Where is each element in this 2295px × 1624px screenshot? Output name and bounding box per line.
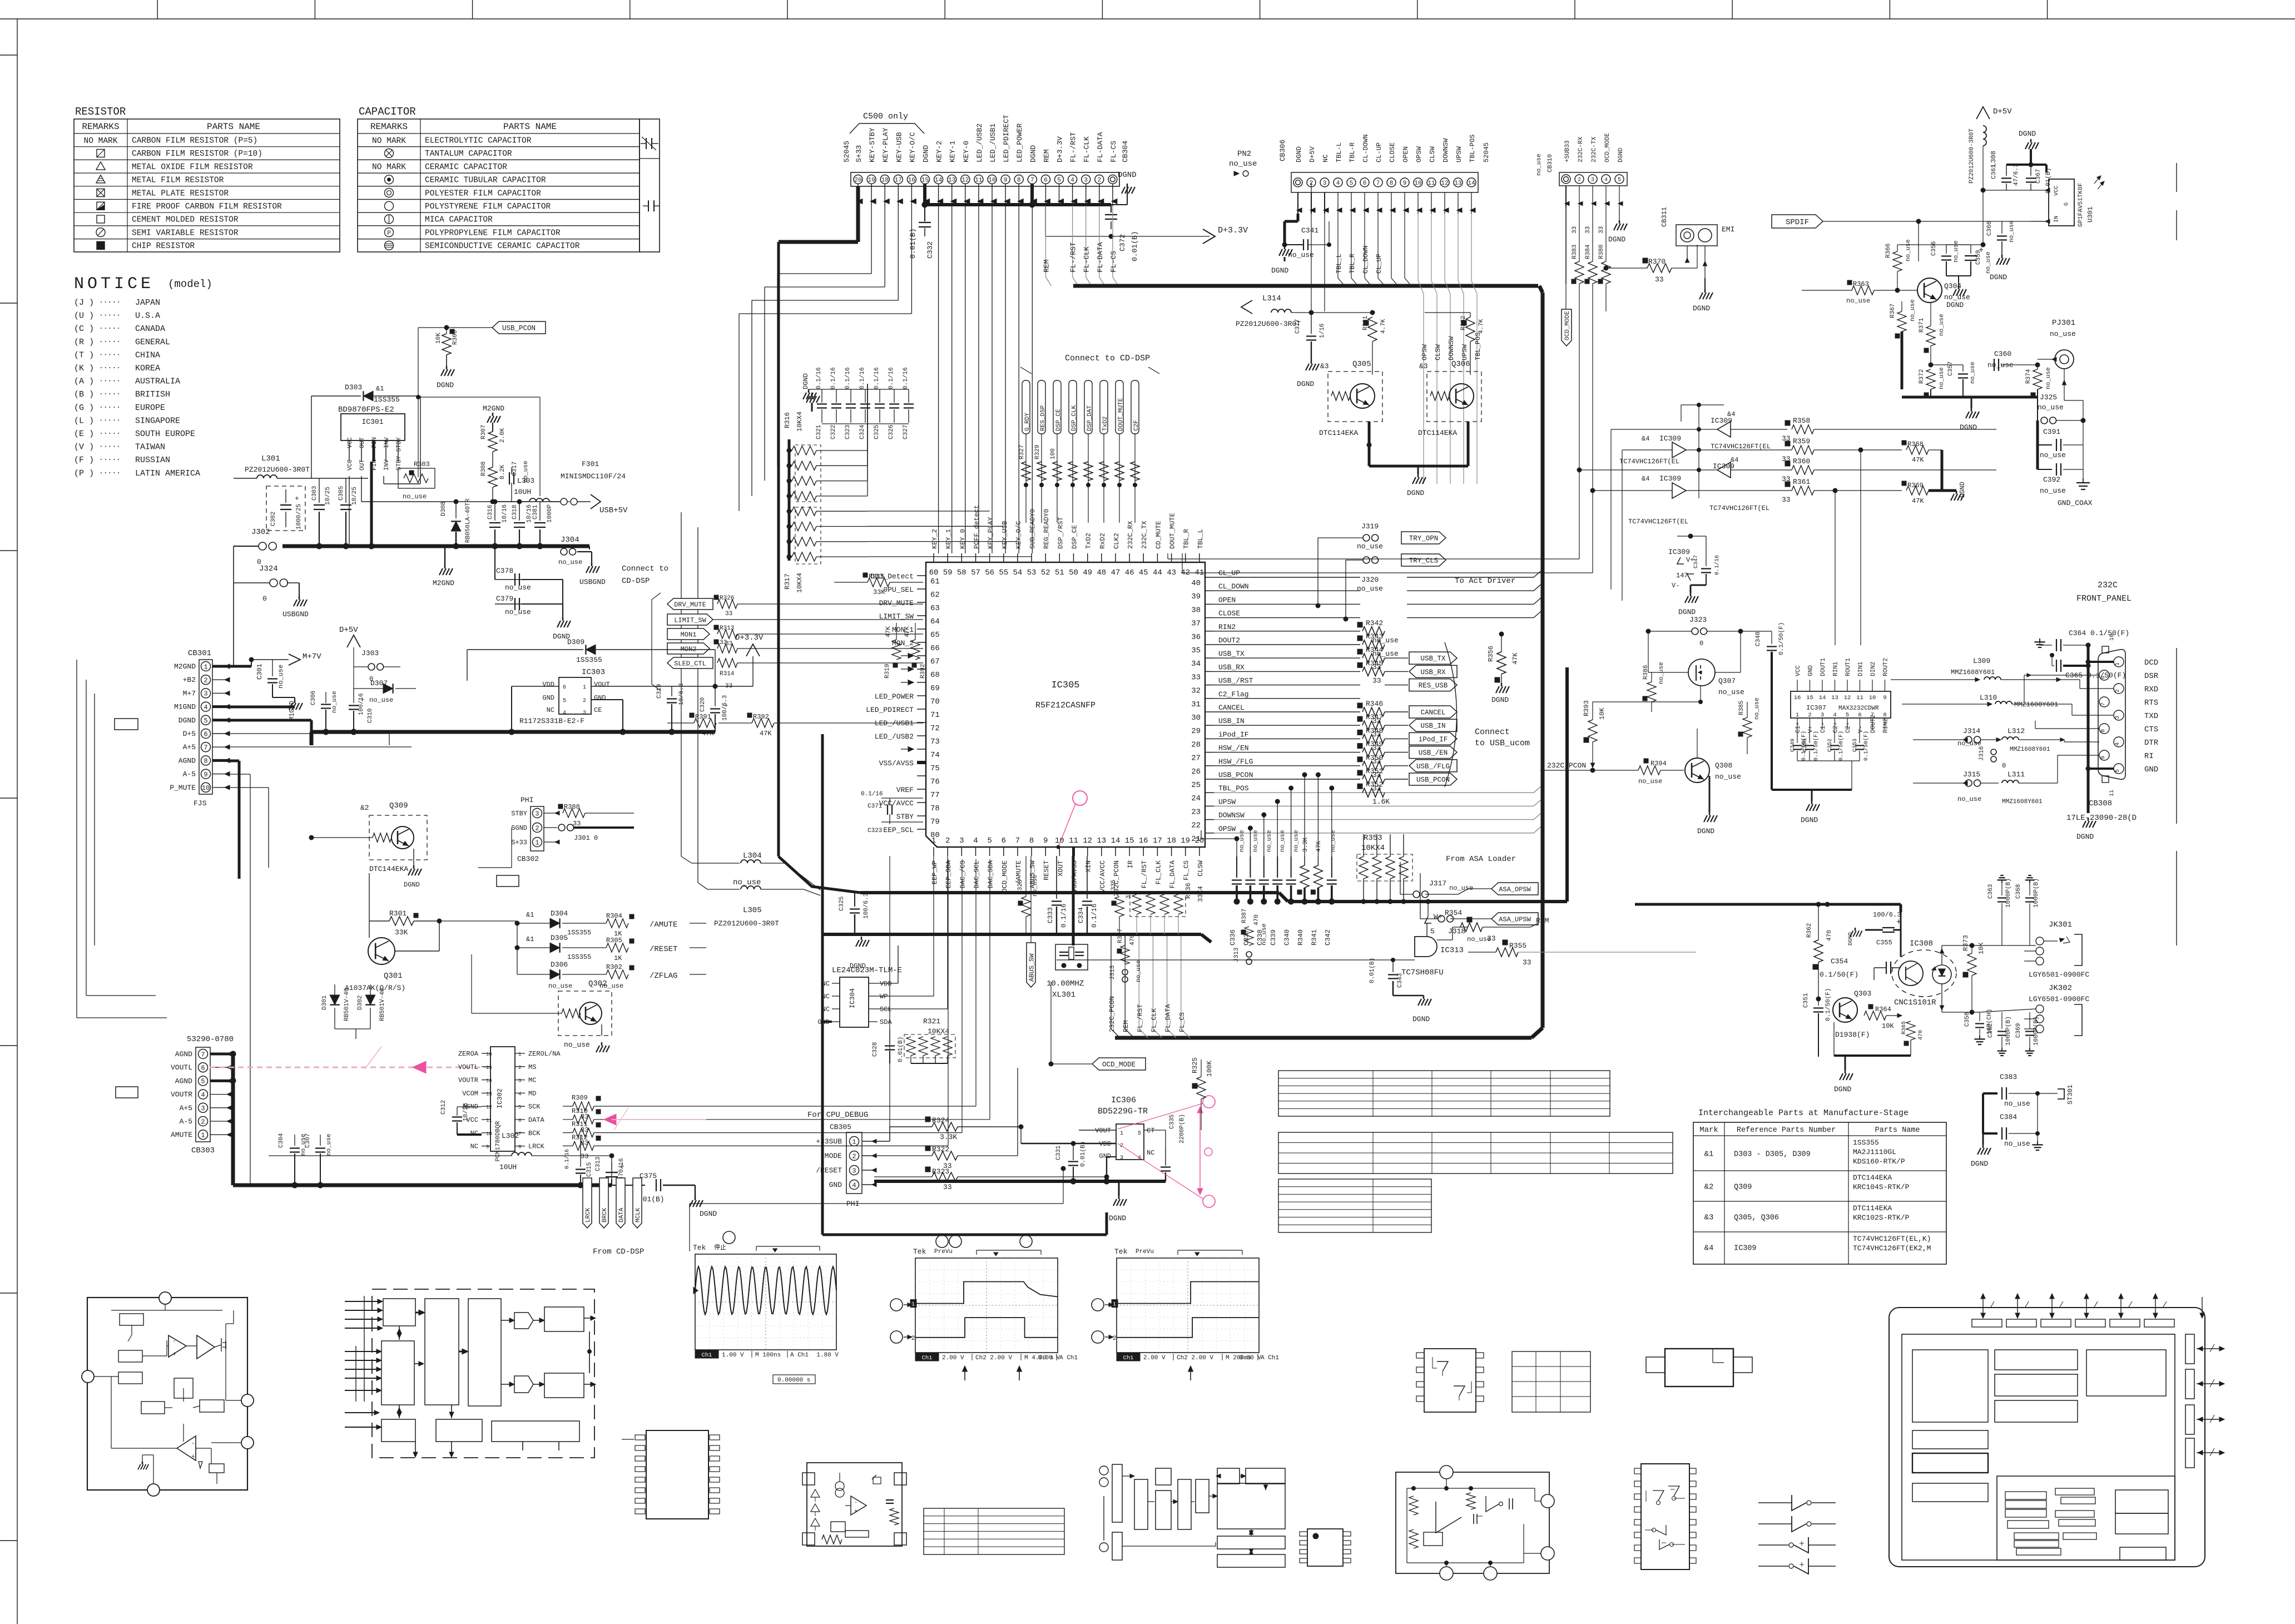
- R381 R382 4.7K: [1362, 313, 1485, 375]
- svg-text:no_use: no_use: [1357, 542, 1383, 551]
- svg-text:CLSW: CLSW: [1429, 146, 1436, 162]
- svg-text:DGND: DGND: [1297, 380, 1314, 388]
- svg-text:CD_MUTE: CD_MUTE: [1154, 521, 1162, 549]
- svg-text:52045: 52045: [842, 141, 851, 162]
- svg-text:D301: D301: [321, 995, 328, 1010]
- svg-text:C303: C303: [311, 486, 318, 501]
- svg-text:64: 64: [930, 617, 940, 626]
- svg-text:C366: C366: [1986, 221, 1993, 236]
- svg-text:&2: &2: [1704, 1183, 1714, 1192]
- svg-text:C307: C307: [305, 1133, 311, 1148]
- svg-text:REMARKS: REMARKS: [82, 122, 119, 132]
- svg-text:OCD_MODE: OCD_MODE: [1001, 860, 1009, 893]
- svg-text:4.7K: 4.7K: [1380, 319, 1387, 334]
- svg-text:0.01(B): 0.01(B): [909, 228, 917, 259]
- svg-text:R382: R382: [1460, 316, 1467, 330]
- svg-text:CB302: CB302: [517, 855, 539, 863]
- wire bundle 232C REM FL to bus: [1108, 934, 1190, 1038]
- svg-text:M1GND: M1GND: [174, 703, 196, 711]
- svg-text:R319: R319: [884, 664, 891, 679]
- svg-text:KEY-USB: KEY-USB: [895, 132, 903, 162]
- caps C378 C379 no_use: [495, 546, 572, 641]
- svg-text:R361: R361: [1793, 478, 1810, 486]
- svg-text:DGND: DGND: [1959, 482, 1966, 498]
- svg-text:ELECTROLYTIC CAPACITOR: ELECTROLYTIC CAPACITOR: [425, 137, 532, 146]
- svg-text:27: 27: [1191, 754, 1201, 763]
- svg-text:/RESET: /RESET: [816, 1166, 842, 1175]
- svg-text:RES_USB: RES_USB: [1419, 682, 1448, 690]
- svg-text:2: 2: [1808, 712, 1811, 719]
- svg-text:no_use: no_use: [2040, 451, 2066, 459]
- svg-text:DIN2: DIN2: [1870, 662, 1877, 676]
- svg-text:4: 4: [201, 1091, 205, 1099]
- svg-text:14: 14: [935, 177, 943, 184]
- svg-text:no_use: no_use: [1136, 960, 1142, 982]
- svg-text:C354: C354: [1831, 957, 1848, 966]
- svg-text:10/16: 10/16: [502, 504, 508, 523]
- svg-text:R392: R392: [920, 664, 926, 679]
- svg-text:DOUT_MUTE: DOUT_MUTE: [1118, 398, 1124, 431]
- svg-text:DGND: DGND: [1608, 235, 1625, 244]
- coax jack PJ301 no_use: [2038, 319, 2076, 385]
- R370 33 and CB311 EMI: [1604, 245, 1697, 284]
- caps C362 C369 1000P: [1987, 1012, 2012, 1056]
- svg-text:10K: 10K: [1598, 707, 1606, 720]
- svg-text:VOUTL: VOUTL: [171, 1063, 192, 1072]
- svg-text:+B2: +B2: [183, 676, 196, 684]
- ABUS_SW vertical tag: [1027, 856, 1035, 987]
- op-amp IC305 microcontroller R5F212CASNFP: [926, 562, 1205, 847]
- connector CB305 CPU debug: [807, 1111, 876, 1208]
- CB303 thick AGND bus down: [230, 1051, 236, 1185]
- resistors R358-R361 33: [1782, 417, 1996, 645]
- svg-text:VOUTL: VOUTL: [458, 1063, 478, 1071]
- svg-text:2: 2: [201, 1118, 205, 1126]
- svg-text:SEMI VARIABLE RESISTOR: SEMI VARIABLE RESISTOR: [132, 229, 239, 237]
- svg-text:CE: CE: [594, 706, 602, 714]
- svg-text:R362: R362: [1806, 923, 1813, 938]
- power driver circuit diagram: [1396, 1465, 1554, 1580]
- mosfet Q307 no_use: [1593, 631, 1744, 704]
- svg-text:50: 50: [1069, 568, 1078, 577]
- svg-text:CLSW: CLSW: [1434, 344, 1442, 360]
- svg-text:POLYSTYRENE FILM CAPACITOR: POLYSTYRENE FILM CAPACITOR: [425, 202, 551, 211]
- svg-text:2: 2: [911, 1335, 915, 1342]
- svg-text:DGND: DGND: [2019, 130, 2036, 138]
- svg-text:LATIN AMERICA: LATIN AMERICA: [135, 469, 200, 478]
- svg-text:DTC114EKA: DTC114EKA: [1319, 429, 1358, 437]
- svg-text:C359: C359: [1975, 250, 1982, 265]
- svg-text:D+3.3V: D+3.3V: [735, 633, 764, 642]
- svg-text:C334: C334: [1077, 907, 1085, 923]
- svg-text:Connect: Connect: [1475, 727, 1510, 737]
- svg-text:DSP_CE: DSP_CE: [1071, 525, 1079, 549]
- svg-text:R353: R353: [1364, 834, 1382, 843]
- svg-text:RUSSIAN: RUSSIAN: [135, 455, 170, 465]
- svg-text:(K ): (K ): [74, 364, 94, 373]
- svg-text:DGND: DGND: [1960, 423, 1977, 432]
- svg-text:232C-RX: 232C-RX: [1578, 136, 1584, 162]
- svg-text:INV: INV: [384, 459, 390, 471]
- svg-text:CLOSE: CLOSE: [1218, 610, 1240, 618]
- svg-text:METAL PLATE RESISTOR: METAL PLATE RESISTOR: [132, 189, 229, 198]
- svg-text:P_MUTE: P_MUTE: [170, 784, 196, 792]
- svg-text:1: 1: [201, 1132, 205, 1140]
- svg-text:FL-CLK: FL-CLK: [1083, 136, 1091, 162]
- svg-text:Q305: Q305: [1352, 360, 1371, 369]
- svg-text:34: 34: [1191, 660, 1201, 669]
- svg-text:PZ2012U600-3R0T: PZ2012U600-3R0T: [1969, 128, 1975, 184]
- svg-text:TC74VHC126FT(EL: TC74VHC126FT(EL: [1709, 504, 1769, 512]
- svg-text:R324: R324: [932, 1116, 949, 1125]
- svg-text:A1037AK(Q/R/S): A1037AK(Q/R/S): [345, 984, 405, 992]
- svg-text:DGND: DGND: [1109, 1214, 1126, 1222]
- svg-text:8: 8: [1390, 180, 1394, 187]
- svg-text:NC: NC: [1322, 155, 1330, 162]
- svg-text:no_use: no_use: [1715, 773, 1741, 781]
- svg-text:5: 5: [563, 698, 566, 704]
- svg-text:VOUTR: VOUTR: [171, 1091, 192, 1099]
- svg-text:470: 470: [1129, 934, 1136, 945]
- inductor L303 10UH: [361, 477, 561, 504]
- svg-text:C343: C343: [1397, 973, 1404, 988]
- svg-text:no_use: no_use: [1939, 314, 1945, 336]
- svg-text:D+5: D+5: [183, 730, 196, 738]
- svg-text:USB_/RST: USB_/RST: [1218, 677, 1253, 685]
- svg-text:no_use: no_use: [2045, 367, 2052, 389]
- svg-text:1: 1: [852, 1138, 856, 1146]
- svg-text:C342: C342: [1324, 929, 1332, 945]
- svg-text:L309: L309: [1973, 657, 1990, 665]
- svg-text:(C ): (C ): [74, 324, 94, 334]
- svg-text:SGND: SGND: [511, 824, 527, 832]
- svg-text:DGND: DGND: [922, 145, 930, 162]
- svg-text:7: 7: [1030, 177, 1034, 184]
- svg-text:100: 100: [1050, 448, 1057, 459]
- svg-text:USB_/FLG: USB_/FLG: [1416, 763, 1450, 770]
- svg-text:C326: C326: [888, 425, 895, 439]
- svg-text:TBL-R: TBL-R: [1349, 142, 1356, 162]
- svg-text:D+5V: D+5V: [339, 626, 358, 635]
- Connect to CD-DSP left label: [622, 565, 668, 691]
- svg-text:TxD2: TxD2: [1085, 533, 1093, 549]
- svg-text:(G ): (G ): [74, 403, 94, 413]
- EEPROM wires to IC305 pins: [878, 856, 948, 1009]
- svg-text:0: 0: [1699, 640, 1703, 647]
- D+3.3V thick rail: [311, 729, 715, 745]
- svg-text:VDD: VDD: [542, 681, 554, 689]
- svg-text:no_use: no_use: [2040, 487, 2066, 495]
- svg-text:USB+5V: USB+5V: [599, 506, 628, 515]
- svg-text:KEY_PLAY: KEY_PLAY: [987, 517, 995, 549]
- svg-text:0.1/50(F): 0.1/50(F): [1838, 731, 1845, 761]
- C354 cap 0.1/50F: [1820, 957, 1901, 980]
- svg-text:C367: C367: [2035, 169, 2042, 184]
- svg-text:43: 43: [1167, 568, 1176, 577]
- svg-text:MMZ1608Y601: MMZ1608Y601: [2010, 746, 2050, 753]
- svg-text:3: 3: [583, 710, 586, 716]
- svg-text:1000P(B): 1000P(B): [2033, 878, 2040, 908]
- svg-text:67: 67: [930, 657, 940, 666]
- svg-text:(J ): (J ): [74, 298, 94, 308]
- svg-text:33: 33: [1598, 226, 1605, 234]
- oscilloscope capture 1 sine: [693, 1231, 839, 1384]
- svg-text:C383: C383: [2000, 1073, 2017, 1081]
- svg-text:SCK: SCK: [528, 1103, 541, 1111]
- svg-text:C325: C325: [874, 425, 880, 439]
- svg-text:C304: C304: [278, 1133, 285, 1148]
- svg-text:NOTICE: NOTICE: [74, 275, 154, 294]
- svg-text:R383: R383: [1572, 245, 1578, 259]
- svg-text:DCD: DCD: [2144, 658, 2158, 667]
- transistor Q309 DTC144EKA: [309, 801, 427, 889]
- svg-text:IC313: IC313: [1440, 946, 1464, 955]
- svg-text:TxD2: TxD2: [1102, 417, 1109, 431]
- svg-text:KEY-STBY: KEY-STBY: [868, 127, 876, 162]
- svg-text:9: 9: [1403, 180, 1407, 187]
- svg-text:.....: .....: [99, 454, 121, 462]
- svg-text:1.00 V: 1.00 V: [722, 1352, 744, 1359]
- svg-text:10/25: 10/25: [325, 487, 331, 505]
- L314 ferrite D+5V: [1236, 182, 1375, 328]
- svg-text:1: 1: [518, 1052, 521, 1057]
- svg-text:.....: .....: [99, 414, 121, 423]
- svg-text:9: 9: [1043, 836, 1048, 845]
- connector CB308 D-sub 9pin: [2024, 634, 2159, 823]
- svg-text:(B ): (B ): [74, 390, 94, 399]
- svg-text:R349: R349: [1366, 740, 1383, 749]
- svg-text:78: 78: [930, 804, 940, 813]
- svg-text:10: 10: [1414, 180, 1421, 187]
- svg-text:M2GND: M2GND: [483, 404, 504, 413]
- svg-text:R368: R368: [1907, 440, 1924, 448]
- svg-text:DGND: DGND: [1946, 301, 1964, 309]
- svg-text:to USB_ucom: to USB_ucom: [1475, 739, 1530, 748]
- svg-text:A Ch1: A Ch1: [1261, 1355, 1279, 1361]
- svg-text:100/6.3: 100/6.3: [1873, 911, 1901, 919]
- svg-text:R328: R328: [1017, 880, 1024, 894]
- svg-text:NC: NC: [822, 993, 830, 1001]
- svg-text:147: 147: [1676, 572, 1688, 580]
- svg-text:.....: .....: [99, 296, 121, 305]
- svg-text:D309: D309: [567, 638, 584, 646]
- svg-text:no_use: no_use: [1905, 239, 1912, 261]
- svg-text:TBL_R: TBL_R: [1349, 254, 1356, 274]
- svg-text:RIN2: RIN2: [1218, 623, 1236, 631]
- svg-text:FL_/RST: FL_/RST: [1136, 1004, 1144, 1032]
- svg-text:C302: C302: [270, 512, 277, 526]
- svg-text:60: 60: [929, 568, 939, 577]
- C375 cap to DGND: [612, 1172, 717, 1218]
- svg-text:OCD_MODE: OCD_MODE: [1604, 133, 1611, 162]
- svg-text:BCK: BCK: [528, 1130, 541, 1137]
- svg-text:0.00 V: 0.00 V: [1239, 1355, 1261, 1361]
- svg-text:100/6.3: 100/6.3: [863, 893, 870, 919]
- svg-text:From CD-DSP: From CD-DSP: [593, 1247, 644, 1256]
- svg-text:R350: R350: [1366, 754, 1383, 762]
- svg-text:LED_PDIRECT: LED_PDIRECT: [1002, 115, 1010, 162]
- svg-text:6: 6: [1002, 836, 1006, 845]
- svg-text:10: 10: [486, 1131, 492, 1137]
- svg-text:C355: C355: [1876, 939, 1892, 947]
- svg-text:A Ch1: A Ch1: [1059, 1355, 1078, 1361]
- svg-text:C301: C301: [256, 664, 264, 680]
- svg-text:DOUT2: DOUT2: [1870, 715, 1877, 733]
- svg-text:7: 7: [1015, 836, 1020, 845]
- svg-text:AGND: AGND: [179, 756, 196, 765]
- svg-text:no_use: no_use: [1970, 362, 1976, 384]
- svg-text:CB311: CB311: [1660, 207, 1668, 227]
- svg-text:C363: C363: [1987, 884, 1994, 899]
- svg-text:CB304: CB304: [1121, 141, 1129, 162]
- svg-text:LED_/USB2: LED_/USB2: [875, 732, 914, 741]
- svg-text:C361: C361: [1991, 164, 1997, 179]
- svg-text:53: 53: [1027, 568, 1037, 577]
- svg-text:R351: R351: [1366, 767, 1383, 775]
- svg-text:no_use: no_use: [505, 608, 531, 616]
- svg-text:CARBON FILM RESISTOR (P=5): CARBON FILM RESISTOR (P=5): [132, 137, 257, 146]
- svg-text:V-: V-: [1672, 582, 1679, 590]
- svg-text:Q301: Q301: [384, 972, 403, 981]
- svg-text:IC302: IC302: [496, 1088, 504, 1108]
- svg-text:no_use: no_use: [1846, 297, 1870, 305]
- optocoupler IC308 CNC1S101R: [1892, 939, 1980, 1012]
- svg-text:2: 2: [1578, 177, 1581, 184]
- svg-text:12: 12: [486, 1105, 492, 1110]
- svg-text:CANADA: CANADA: [135, 324, 165, 334]
- svg-text:TXD: TXD: [2144, 712, 2158, 721]
- jumper J302: [234, 528, 276, 566]
- svg-text:KRC102S-RTK/P: KRC102S-RTK/P: [1853, 1214, 1910, 1222]
- svg-text:MCLK: MCLK: [635, 1207, 642, 1222]
- svg-text:13: 13: [1831, 695, 1838, 701]
- svg-text:USB_PCON: USB_PCON: [502, 325, 536, 333]
- svg-text:C325: C325: [839, 897, 845, 911]
- svg-text:0.1/16: 0.1/16: [816, 367, 822, 389]
- svg-text:no_use: no_use: [1718, 688, 1744, 696]
- svg-text:iPod_IF: iPod_IF: [1419, 736, 1448, 744]
- svg-text:12: 12: [1844, 695, 1851, 701]
- diodes D301 D302 RB501V-40: [321, 984, 386, 1039]
- svg-text:TC7SH08FU: TC7SH08FU: [1401, 968, 1444, 977]
- spindle driver block diagram: [1099, 1464, 1285, 1567]
- svg-text:&3: &3: [1704, 1214, 1714, 1222]
- svg-text:STBY: STBY: [896, 813, 914, 821]
- svg-text:66: 66: [930, 644, 940, 653]
- svg-text:14: 14: [1111, 836, 1121, 845]
- svg-text:56: 56: [985, 568, 994, 577]
- svg-text:For CPU_DEBUG: For CPU_DEBUG: [807, 1111, 868, 1120]
- svg-text:R326: R326: [720, 595, 734, 602]
- svg-text:R316: R316: [784, 412, 791, 428]
- svg-text:R388: R388: [564, 803, 580, 811]
- svg-text:C392: C392: [2043, 476, 2060, 484]
- svg-text:33: 33: [943, 1183, 952, 1191]
- svg-text:USB_RX: USB_RX: [1420, 669, 1446, 676]
- svg-text:TBL_POS: TBL_POS: [1218, 784, 1249, 793]
- svg-text:NO MARK: NO MARK: [84, 137, 118, 146]
- Connect to CD-DSP labels: [1020, 354, 1159, 523]
- OCD_MODE tag: [1049, 982, 1146, 1070]
- svg-text:1/16: 1/16: [1319, 324, 1326, 338]
- svg-text:14: 14: [1819, 695, 1826, 701]
- svg-text:15: 15: [486, 1065, 492, 1071]
- svg-text:1SS355: 1SS355: [576, 656, 602, 664]
- svg-text:0.1/50(F): 0.1/50(F): [1813, 731, 1820, 761]
- svg-text:R358: R358: [1793, 417, 1810, 425]
- IC package DIP-8 with inverters: [1416, 1349, 1484, 1412]
- svg-text:C332: C332: [926, 241, 934, 259]
- C377 cap 1/16 DGND: [1295, 313, 1326, 388]
- IC301 BD9870FPS-E2 DCDC: [338, 396, 420, 549]
- front panel unit block diagram: [1889, 1294, 2224, 1567]
- svg-text:C317: C317: [512, 462, 518, 476]
- svg-text:33: 33: [1126, 892, 1132, 899]
- svg-text:C312: C312: [440, 1100, 447, 1115]
- svg-text:5: 5: [1430, 927, 1435, 935]
- svg-text:R310: R310: [572, 1107, 588, 1115]
- svg-text:RESISTOR: RESISTOR: [75, 106, 126, 118]
- svg-text:11: 11: [1069, 836, 1078, 845]
- crystal XL301 10MHz: [1047, 856, 1088, 999]
- svg-text:1: 1: [583, 685, 586, 691]
- svg-text:DAC_/CS: DAC_/CS: [959, 860, 966, 888]
- svg-text:TRY_CLS: TRY_CLS: [1409, 557, 1439, 565]
- svg-text:NC: NC: [822, 1006, 830, 1013]
- svg-text:61: 61: [930, 577, 940, 586]
- svg-text:C364 0.1/50(F): C364 0.1/50(F): [2069, 629, 2129, 637]
- svg-text:J316: J316: [1979, 746, 1985, 761]
- bus 232C_PCON vertical: [1565, 667, 1569, 902]
- svg-text:C322: C322: [830, 425, 837, 439]
- svg-text:no_use: no_use: [505, 583, 531, 592]
- svg-text:no_use: no_use: [1032, 874, 1039, 897]
- svg-text:P: P: [387, 230, 391, 237]
- svg-text:DGND: DGND: [1697, 827, 1714, 835]
- svg-text:.....: .....: [99, 467, 121, 476]
- svg-text:R335: R335: [1111, 880, 1117, 894]
- svg-text:DGND: DGND: [1407, 489, 1424, 497]
- svg-text:0.1/50(F): 0.1/50(F): [1778, 622, 1785, 655]
- connector CB311: [1660, 207, 1734, 313]
- svg-text:RB501V-40: RB501V-40: [344, 988, 350, 1021]
- svg-text:R344: R344: [1366, 646, 1383, 654]
- svg-text:C351: C351: [1803, 993, 1810, 1008]
- svg-text:NC: NC: [547, 706, 554, 714]
- R303 no_use: [398, 461, 435, 501]
- svg-text:J313: J313: [1109, 966, 1116, 980]
- svg-text:R306: R306: [452, 330, 459, 345]
- svg-text:NC: NC: [822, 980, 830, 988]
- svg-text:R309: R309: [572, 1094, 588, 1102]
- svg-text:TC74VHC126FT(EK2,M: TC74VHC126FT(EK2,M: [1853, 1244, 1931, 1252]
- svg-text:10KX4: 10KX4: [796, 573, 804, 593]
- svg-text:11: 11: [1427, 180, 1435, 187]
- svg-text:DGND: DGND: [1801, 816, 1818, 824]
- transistor Q304 no_use: [1917, 221, 1970, 303]
- svg-text:R394: R394: [1650, 760, 1667, 768]
- svg-text:J319: J319: [1361, 522, 1379, 531]
- svg-text:2: 2: [852, 1152, 856, 1160]
- svg-text:L303: L303: [517, 477, 534, 485]
- svg-text:Ch1: Ch1: [922, 1355, 933, 1361]
- caps C383 C384 no_use ST301: [1971, 1073, 2074, 1168]
- svg-text:7: 7: [1376, 180, 1380, 187]
- svg-text:J315: J315: [1963, 770, 1980, 779]
- svg-text:J314: J314: [1963, 727, 1980, 735]
- svg-text:DOWNSW: DOWNSW: [1448, 336, 1455, 360]
- svg-text:METAL FILM RESISTOR: METAL FILM RESISTOR: [132, 176, 224, 185]
